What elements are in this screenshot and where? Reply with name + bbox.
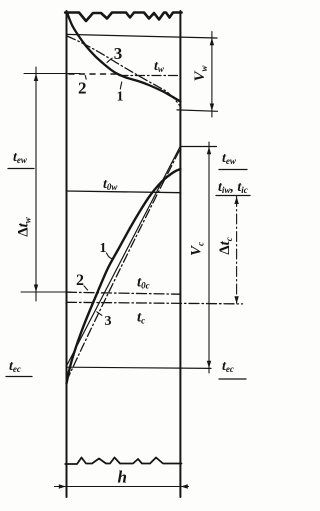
top broken edge with notches [65,13,181,22]
svg-text:t0c: t0c [137,275,150,291]
dimension line Delta t_c (dash-dot) [236,197,238,304]
svg-text:t0w: t0w [103,177,118,192]
line 3 (water, dash-dot profile) [67,36,181,108]
svg-text:tew: tew [222,151,237,166]
svg-text:2: 2 [78,79,87,98]
leader tick for label 3 (top) [107,58,112,62]
t_c dash-dot level line [67,302,243,304]
underline t_ec left [6,376,32,378]
svg-text:1: 1 [117,90,124,105]
leader tick for label 1 (top) [120,82,122,89]
svg-text:2: 2 [76,272,84,289]
line 2 (slab, thin straight profile) [67,146,181,366]
Vw bottom extension line [177,110,218,111]
underline t_ew right [219,169,247,171]
dimension line Vw [211,32,213,118]
leader tick for label 3 (middle) [97,312,102,316]
leader tick for label 2 (top) [85,76,86,80]
h dimension line [55,486,189,488]
t_w dash-dot level line [119,75,180,77]
curve 1 (water, actual profile) [67,13,180,102]
svg-text:tc: tc [137,310,145,326]
svg-text:3: 3 [105,314,112,329]
leader tick for label 1 (middle) [107,253,112,259]
t_ec level line [67,367,211,368]
bottom broken edge with bumps [65,458,181,465]
svg-text:Vc: Vc [189,242,206,256]
svg-text:1: 1 [100,241,107,256]
svg-text:tec: tec [9,359,21,374]
svg-text:Vw: Vw [192,65,209,82]
curve 1 (slab, actual profile) [67,169,181,384]
svg-text:tew: tew [13,150,28,165]
underline t_iw t_ic right [216,195,250,197]
underline t_ec right [219,378,246,380]
svg-text:Δtc: Δtc [217,237,234,255]
wall right edge [179,11,181,497]
dimension line Vc [208,142,210,373]
left extension at t_w level [24,73,80,75]
t_0w level line [67,191,181,193]
leader tick for label 2 (middle) [84,286,88,290]
wall left edge [66,11,68,497]
svg-text:h: h [118,468,127,487]
t_0c dash-dot level line [67,292,181,294]
svg-text:tec: tec [222,359,234,374]
svg-text:tiw, tic: tiw, tic [218,180,248,195]
svg-text:tw: tw [154,59,165,74]
line 2 (water, dashed mean temperature) [69,73,117,75]
underline t_ew left [8,168,34,170]
Vc top extension line [180,146,216,148]
svg-text:3: 3 [114,44,123,63]
line 3 (slab, dash-dot profile) [67,149,181,382]
dimension line Delta t_w [35,67,37,301]
left extension at t_0c level [21,291,71,293]
water surface line + Vw top extension [67,34,218,38]
svg-text:Δtw: Δtw [16,216,33,237]
